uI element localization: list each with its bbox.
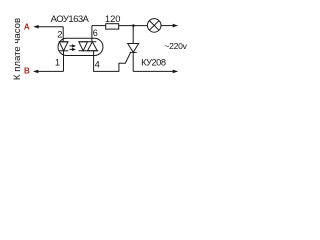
svg-text:2: 2 <box>57 30 62 41</box>
svg-text:4: 4 <box>95 59 100 69</box>
svg-text:~220v: ~220v <box>164 41 187 51</box>
svg-text:КУ208: КУ208 <box>141 57 166 67</box>
svg-text:В: В <box>24 66 30 75</box>
svg-text:1: 1 <box>55 58 60 68</box>
svg-text:А: А <box>24 22 30 31</box>
svg-text:АОУ163А: АОУ163А <box>51 14 90 25</box>
svg-text:К плате часов: К плате часов <box>12 18 23 80</box>
svg-text:6: 6 <box>93 28 98 38</box>
svg-text:120: 120 <box>105 13 121 24</box>
